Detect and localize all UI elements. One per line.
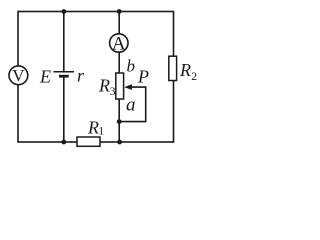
wire R3 to bottom <box>118 99 120 142</box>
svg-text:R: R <box>179 60 191 80</box>
svg-text:a: a <box>126 95 136 116</box>
wire outer loop <box>18 12 174 143</box>
svg-text:2: 2 <box>191 71 197 83</box>
node top battery junction <box>61 9 66 14</box>
battery E long plate <box>54 71 75 73</box>
svg-text:1: 1 <box>98 126 104 138</box>
wire potentiometer wiper <box>119 87 146 122</box>
svg-text:R: R <box>98 76 110 96</box>
wire battery branch top <box>63 12 65 72</box>
node bottom middle junction <box>117 140 122 145</box>
svg-text:b: b <box>127 57 136 76</box>
svg-text:P: P <box>137 67 149 87</box>
node wiper junction <box>117 119 122 124</box>
svg-text:r: r <box>77 66 85 86</box>
ammeter A <box>110 33 128 54</box>
resistor R2 <box>169 56 177 80</box>
resistor R1 <box>77 137 100 146</box>
node bottom battery junction <box>61 140 66 145</box>
wiper arrowhead <box>124 84 132 90</box>
svg-text:E: E <box>39 67 51 87</box>
resistor R3 <box>116 73 124 99</box>
voltmeter V <box>9 66 28 85</box>
node top ammeter junction <box>117 9 122 14</box>
svg-text:A: A <box>112 33 126 54</box>
svg-text:3: 3 <box>110 86 116 98</box>
wire ammeter branch <box>118 12 120 74</box>
svg-text:V: V <box>12 66 25 85</box>
wire battery branch bottom <box>63 76 65 142</box>
battery E short plate <box>59 75 69 78</box>
svg-text:R: R <box>87 118 99 138</box>
